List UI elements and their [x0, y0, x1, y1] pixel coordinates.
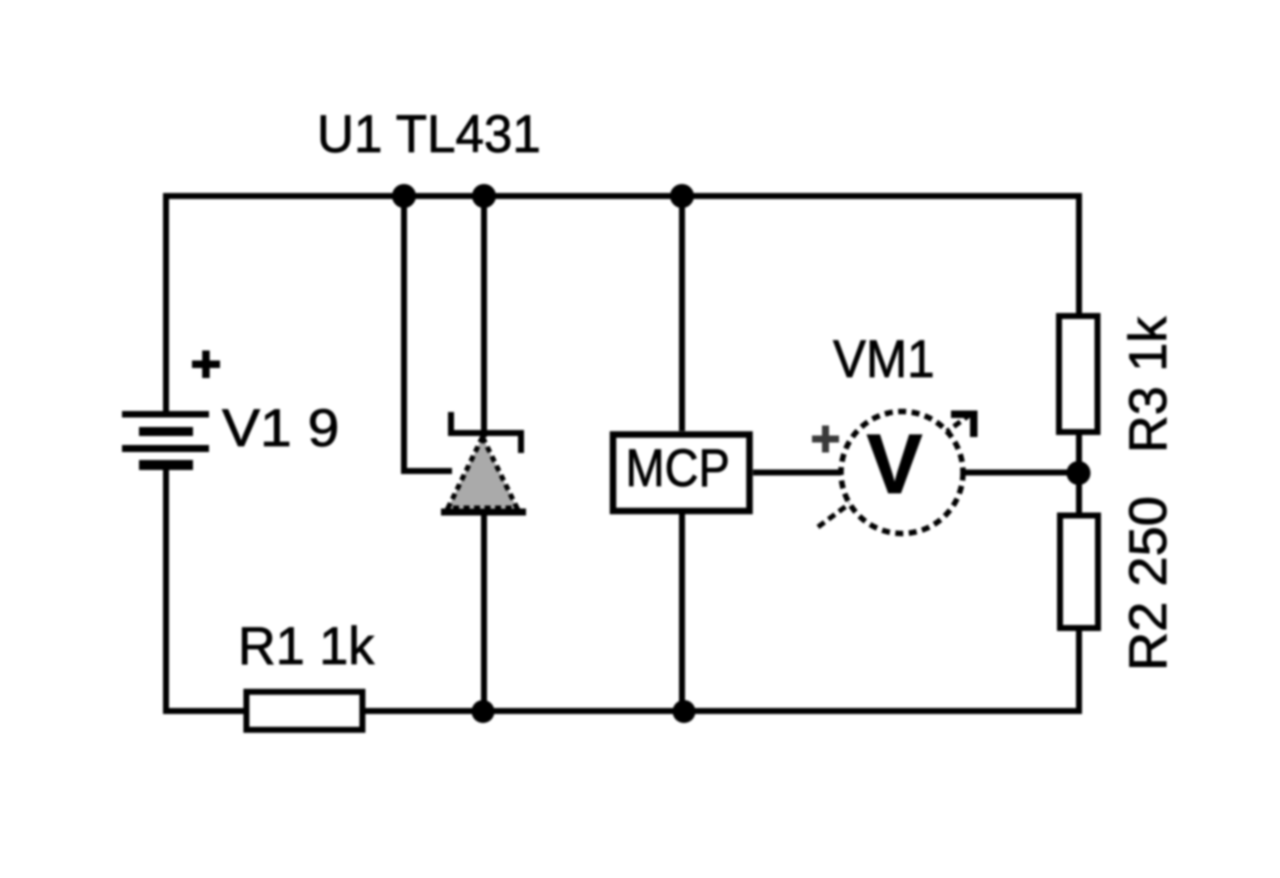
voltmeter VM1 arrow head vertical bar	[970, 411, 978, 438]
battery V1	[122, 411, 209, 470]
svg-text:V1 9: V1 9	[222, 398, 339, 458]
op-amp U1 TL431 triangle	[448, 437, 517, 508]
svg-text:R1 1k: R1 1k	[238, 617, 375, 676]
wire VM1 to right rail	[961, 470, 1082, 476]
wire TL431 ref (left pin)	[404, 196, 452, 471]
voltmeter VM1 circle	[841, 412, 963, 534]
op-amp U1 TL431 anode bar	[441, 509, 526, 516]
svg-text:R2 250: R2 250	[1119, 496, 1178, 671]
wire MCP upper	[679, 196, 685, 431]
svg-text:V: V	[866, 417, 922, 511]
wire right rail upper	[1076, 193, 1082, 316]
voltmeter VM1 arrow shaft	[818, 416, 968, 527]
wire left rail lower	[163, 470, 169, 714]
voltmeter VM1 plus sign	[812, 426, 839, 453]
svg-text:VM1: VM1	[833, 329, 935, 388]
resistor R3	[1059, 316, 1098, 432]
resistor R1	[246, 692, 362, 730]
node top B	[472, 184, 496, 208]
svg-text:R3 1k: R3 1k	[1119, 316, 1178, 453]
op-amp U1 TL431 cathode bar	[451, 412, 521, 453]
wire TL431 anode	[481, 512, 487, 711]
wire MCP lower	[679, 514, 685, 711]
wire right rail lower	[1076, 628, 1082, 714]
wire MCP to VM1	[753, 470, 843, 476]
wire bottom rail	[163, 708, 1082, 714]
wire top rail	[163, 193, 1082, 199]
node bottom B	[673, 700, 696, 723]
node top C	[670, 184, 694, 208]
svg-text:MCP: MCP	[626, 438, 730, 497]
voltmeter VM1 arrow head horizontal bar	[951, 411, 977, 419]
node top A	[392, 184, 416, 208]
battery plus sign	[192, 351, 220, 379]
node bottom A	[472, 700, 495, 723]
wire TL431 cathode	[481, 196, 487, 437]
node right divider	[1067, 461, 1091, 485]
MCP box	[613, 435, 750, 512]
resistor R2	[1060, 516, 1098, 629]
wire right rail middle	[1076, 432, 1082, 515]
wire left rail upper	[163, 193, 169, 411]
svg-text:U1 TL431: U1 TL431	[317, 105, 541, 164]
